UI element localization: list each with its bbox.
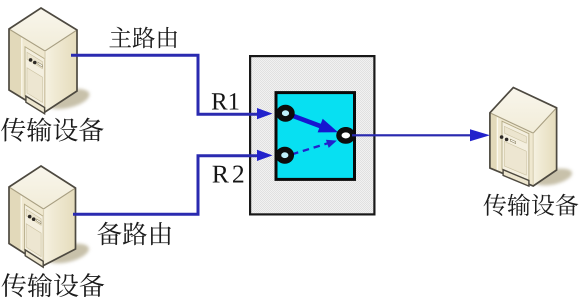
arrowhead into node R1 [257,108,273,119]
node R2 (ingress ring) [278,150,291,161]
active path arrow (solid, R1 to output node) [291,115,339,132]
arrowhead into node R2 [257,150,273,161]
label R2 [213,166,244,183]
node R1 (ingress ring) [279,108,292,119]
router chassis (stippled gray box) [250,56,374,214]
switching fabric (cyan box) [276,93,355,180]
wire output to right server [352,134,471,136]
wire main route (top path) [71,55,258,114]
label 主路由 (main route) [109,27,177,49]
server right 传输设备 [490,88,574,189]
wire backup route (bottom path) [73,156,258,215]
label 传输设备 right [484,194,579,216]
server left-bottom 传输设备 [9,166,91,267]
label R1 [212,93,239,109]
arrowhead into right server [470,129,490,141]
label 传输设备 left-top [1,117,104,141]
standby path arrow (dashed, R2 to output node) [292,140,337,155]
label 备路由 (backup route) [97,222,170,245]
server left-top 传输设备 [9,8,91,114]
label 传输设备 left-bottom [2,273,105,297]
output node ring [339,130,353,141]
